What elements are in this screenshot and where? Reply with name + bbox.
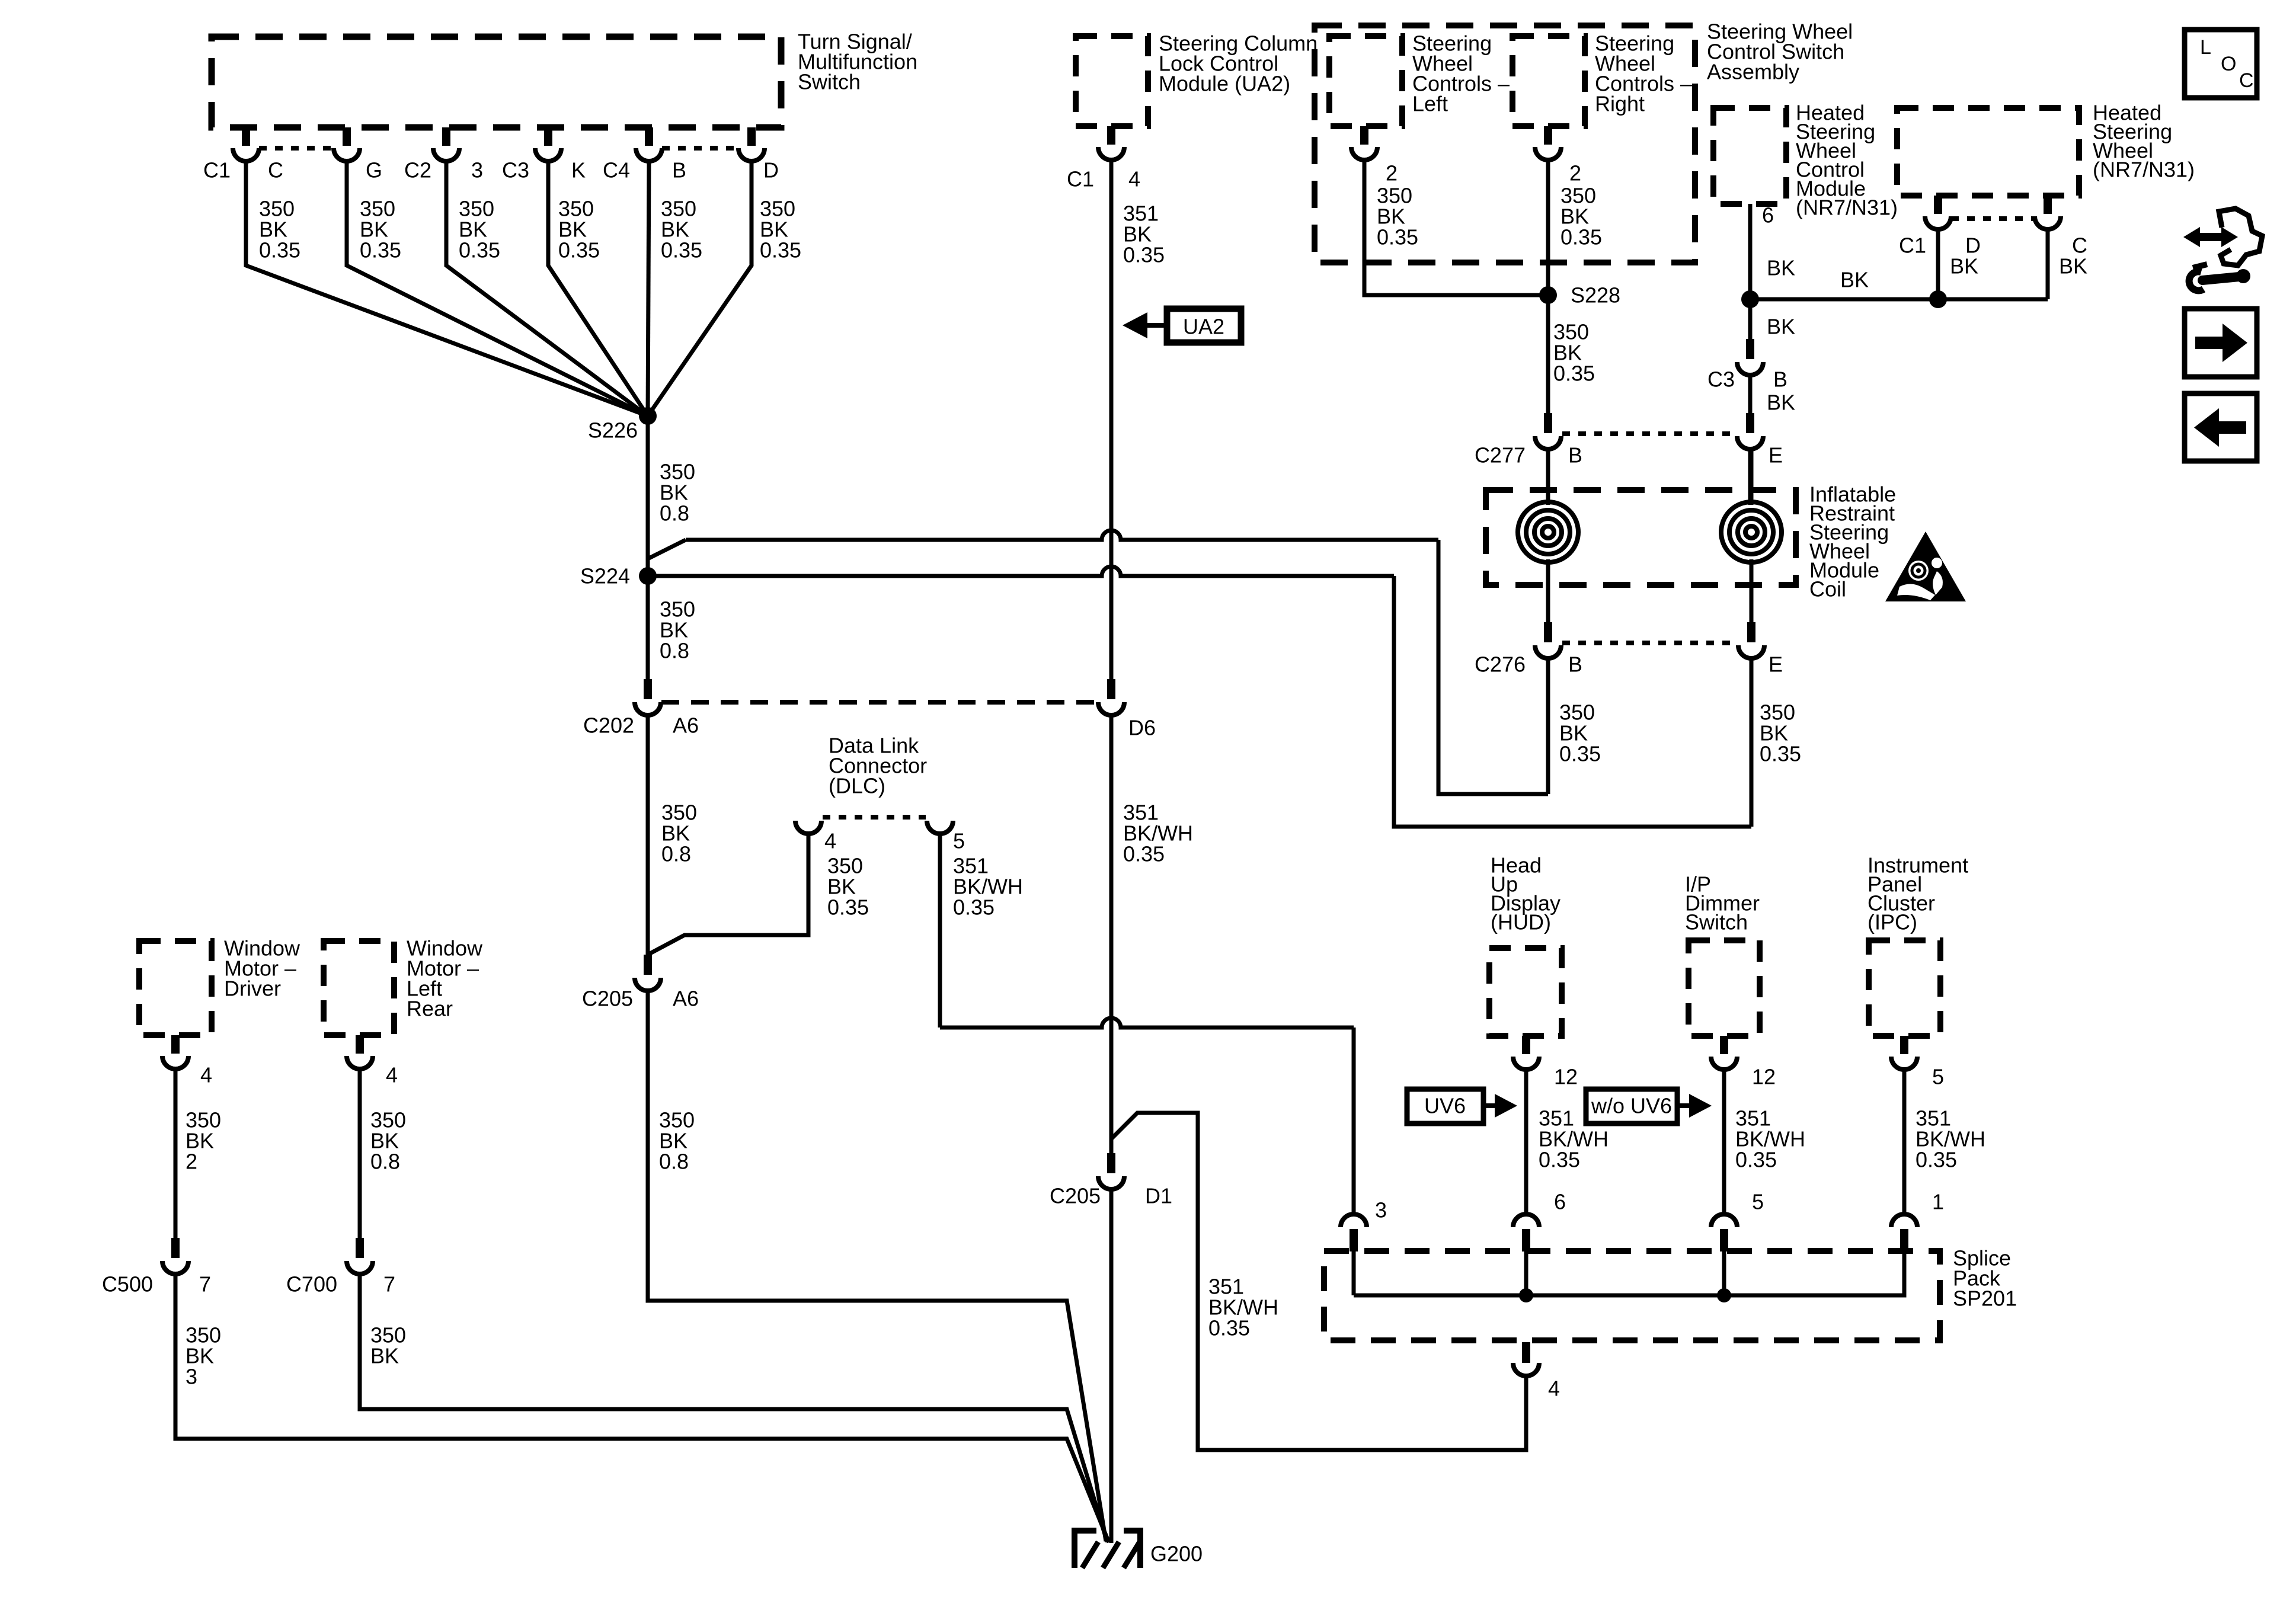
svg-text:0.8: 0.8 xyxy=(659,1150,689,1174)
svg-text:Right: Right xyxy=(1595,92,1645,116)
svg-text:5: 5 xyxy=(953,829,965,853)
svg-text:Assembly: Assembly xyxy=(1707,60,1799,84)
svg-text:C700: C700 xyxy=(286,1272,337,1297)
svg-text:3: 3 xyxy=(471,158,483,183)
svg-text:S226: S226 xyxy=(588,418,638,443)
svg-text:7: 7 xyxy=(199,1272,211,1297)
svg-text:G200: G200 xyxy=(1150,1542,1203,1566)
svg-text:C1: C1 xyxy=(1899,233,1926,258)
svg-text:5: 5 xyxy=(1752,1190,1764,1214)
svg-text:D: D xyxy=(763,158,779,183)
svg-text:Driver: Driver xyxy=(224,977,281,1001)
svg-text:(NR7/N31): (NR7/N31) xyxy=(1796,196,1898,220)
svg-text:0.35: 0.35 xyxy=(1377,225,1418,249)
svg-text:0.35: 0.35 xyxy=(1123,243,1165,267)
svg-text:B: B xyxy=(672,158,686,183)
svg-text:O: O xyxy=(2221,53,2236,75)
svg-text:0.8: 0.8 xyxy=(370,1150,400,1174)
svg-text:1: 1 xyxy=(1932,1190,1944,1214)
svg-text:0.35: 0.35 xyxy=(1559,742,1601,766)
svg-text:4: 4 xyxy=(1548,1377,1560,1401)
svg-text:C3: C3 xyxy=(1707,367,1735,392)
svg-text:BK: BK xyxy=(1767,256,1795,280)
svg-text:BK: BK xyxy=(1767,315,1795,339)
svg-text:A6: A6 xyxy=(673,713,699,738)
svg-text:Left: Left xyxy=(1412,92,1448,116)
svg-text:SP201: SP201 xyxy=(1953,1286,2017,1311)
svg-text:C4: C4 xyxy=(603,158,630,183)
svg-text:4: 4 xyxy=(824,829,836,853)
svg-text:B: B xyxy=(1568,443,1582,468)
svg-text:(HUD): (HUD) xyxy=(1491,910,1551,934)
svg-text:G: G xyxy=(366,158,382,183)
svg-text:0.35: 0.35 xyxy=(1760,742,1801,766)
svg-text:0.35: 0.35 xyxy=(760,238,801,263)
svg-text:0.35: 0.35 xyxy=(1553,361,1595,386)
svg-text:B: B xyxy=(1773,367,1787,392)
svg-text:C500: C500 xyxy=(102,1272,153,1297)
svg-text:C3: C3 xyxy=(502,158,529,183)
svg-text:6: 6 xyxy=(1762,203,1774,228)
svg-text:(NR7/N31): (NR7/N31) xyxy=(2093,158,2195,182)
svg-text:12: 12 xyxy=(1554,1065,1578,1089)
svg-text:2: 2 xyxy=(1569,161,1581,185)
svg-text:BK: BK xyxy=(1950,254,1978,279)
svg-text:C202: C202 xyxy=(583,713,634,738)
svg-text:5: 5 xyxy=(1932,1065,1944,1089)
svg-text:0.8: 0.8 xyxy=(660,501,689,526)
svg-text:0.35: 0.35 xyxy=(1123,842,1165,866)
svg-text:4: 4 xyxy=(1128,167,1140,191)
svg-text:0.35: 0.35 xyxy=(360,238,401,263)
svg-text:0.35: 0.35 xyxy=(1560,225,1602,249)
svg-text:w/o UV6: w/o UV6 xyxy=(1591,1094,1672,1118)
svg-text:C205: C205 xyxy=(1050,1184,1101,1208)
svg-text:UV6: UV6 xyxy=(1424,1094,1466,1118)
svg-text:Rear: Rear xyxy=(407,997,453,1021)
svg-text:2: 2 xyxy=(186,1150,197,1174)
svg-text:Switch: Switch xyxy=(1685,910,1748,934)
svg-text:0.35: 0.35 xyxy=(953,895,994,920)
svg-text:UA2: UA2 xyxy=(1183,315,1224,339)
svg-text:A6: A6 xyxy=(673,987,699,1011)
svg-text:0.35: 0.35 xyxy=(1539,1148,1580,1172)
svg-text:(DLC): (DLC) xyxy=(829,774,885,798)
svg-text:3: 3 xyxy=(186,1365,197,1389)
svg-text:S228: S228 xyxy=(1571,283,1620,308)
svg-text:0.35: 0.35 xyxy=(1208,1316,1250,1340)
svg-text:0.35: 0.35 xyxy=(661,238,702,263)
svg-text:C276: C276 xyxy=(1475,652,1526,677)
svg-text:0.35: 0.35 xyxy=(259,238,300,263)
svg-text:0.8: 0.8 xyxy=(661,842,691,866)
svg-text:C277: C277 xyxy=(1475,443,1526,468)
svg-text:BK: BK xyxy=(2059,254,2087,279)
svg-text:E: E xyxy=(1769,443,1783,468)
svg-text:Switch: Switch xyxy=(798,70,861,94)
svg-text:0.35: 0.35 xyxy=(459,238,500,263)
svg-text:C: C xyxy=(268,158,283,183)
svg-text:7: 7 xyxy=(383,1272,395,1297)
svg-text:C2: C2 xyxy=(404,158,431,183)
svg-text:BK: BK xyxy=(370,1344,399,1368)
svg-text:3: 3 xyxy=(1375,1198,1387,1222)
svg-text:0.35: 0.35 xyxy=(558,238,600,263)
svg-text:BK: BK xyxy=(1767,391,1795,415)
svg-text:L: L xyxy=(2200,36,2211,59)
svg-text:(IPC): (IPC) xyxy=(1868,910,1917,934)
svg-text:D1: D1 xyxy=(1145,1184,1172,1208)
svg-text:D6: D6 xyxy=(1128,716,1156,740)
svg-text:0.35: 0.35 xyxy=(1735,1148,1777,1172)
svg-text:12: 12 xyxy=(1752,1065,1776,1089)
svg-text:4: 4 xyxy=(200,1063,212,1087)
svg-text:C: C xyxy=(2239,69,2254,92)
svg-text:0.35: 0.35 xyxy=(1916,1148,1957,1172)
svg-text:6: 6 xyxy=(1554,1190,1566,1214)
svg-text:BK: BK xyxy=(1840,268,1869,292)
svg-text:2: 2 xyxy=(1386,161,1398,185)
svg-text:E: E xyxy=(1769,652,1783,677)
svg-text:4: 4 xyxy=(386,1063,398,1087)
svg-text:C205: C205 xyxy=(582,987,633,1011)
svg-text:0.35: 0.35 xyxy=(827,895,869,920)
svg-text:S224: S224 xyxy=(580,564,630,588)
svg-text:Module (UA2): Module (UA2) xyxy=(1159,72,1290,96)
svg-text:C1: C1 xyxy=(1067,167,1094,191)
svg-text:B: B xyxy=(1568,652,1582,677)
svg-text:C1: C1 xyxy=(203,158,231,183)
svg-text:Coil: Coil xyxy=(1809,577,1846,601)
svg-text:0.8: 0.8 xyxy=(660,639,689,663)
svg-text:K: K xyxy=(571,158,586,183)
